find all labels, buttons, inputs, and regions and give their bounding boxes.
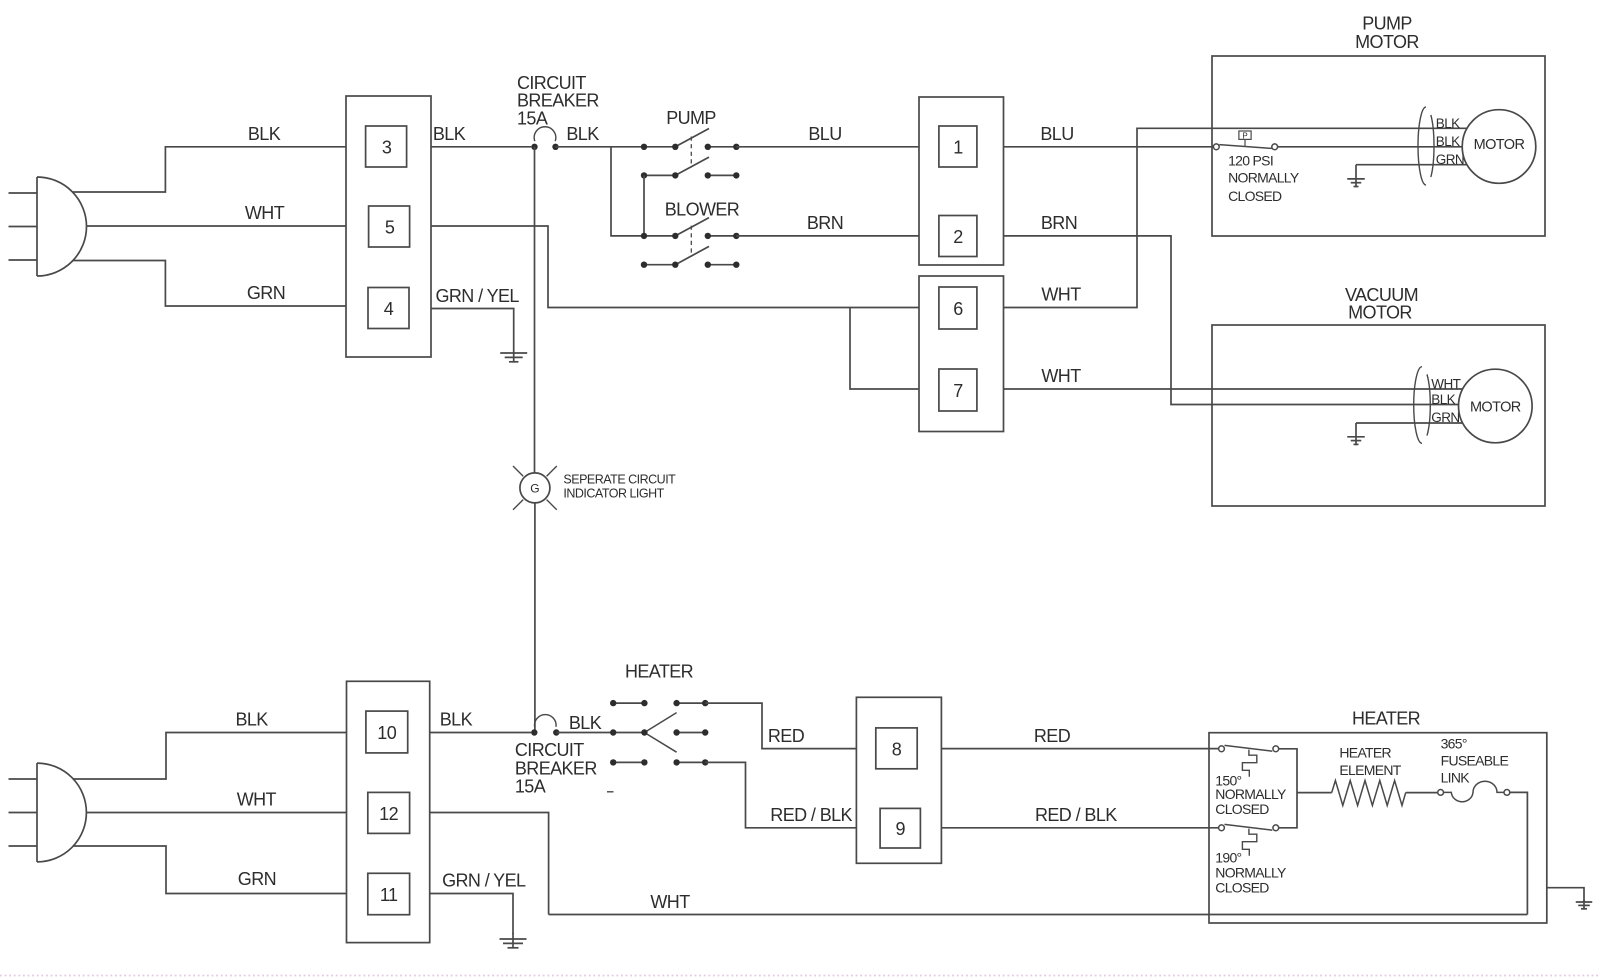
svg-text:WHT: WHT: [1041, 366, 1081, 386]
wire BLU pump switch S1 to connector J2 pin 1: [736, 146, 919, 148]
svg-text:MOTOR: MOTOR: [1470, 399, 1521, 415]
separate circuit wire lamp to lower breaker CB2: [534, 503, 536, 733]
connector J4 body (pins 10,12,11): [347, 681, 430, 942]
wire S1 pump pole2 to blower pole1: [643, 175, 645, 236]
wire fuseable link F1 to WHT return: [1510, 792, 1528, 914]
switch S2 mechanical link (dashed): [690, 226, 692, 257]
ground symbol G2 (pump motor earth): [1347, 165, 1365, 188]
wire GRN plug P2 to connector pin 11: [73, 846, 347, 894]
svg-text:12: 12: [379, 804, 399, 824]
circuit breaker CB2 15A: [531, 715, 559, 736]
connector J5 body (pins 8,9): [856, 697, 941, 863]
svg-text:GRN: GRN: [1431, 410, 1459, 425]
stray tick mark: [607, 791, 614, 793]
svg-text:7: 7: [953, 381, 963, 401]
wire RED/BLK heater switch S4 to connector J5 pin 9: [705, 762, 856, 827]
connector J3 pin 6 square: [939, 287, 977, 329]
svg-text:WHT: WHT: [1431, 376, 1460, 391]
ground symbol G5 (heater chassis earth): [1576, 900, 1593, 910]
svg-text:WHT: WHT: [1041, 285, 1081, 305]
svg-text:ELEMENT: ELEMENT: [1339, 762, 1401, 778]
svg-text:GRN: GRN: [247, 283, 285, 303]
heater enclosure box: [1209, 733, 1547, 923]
wire WHT heater return line: [549, 914, 1528, 916]
wire BLU connector J2 pin 1 to pressure switch S3: [1004, 146, 1214, 148]
svg-text:1: 1: [953, 138, 963, 158]
svg-text:5: 5: [385, 218, 395, 238]
switch S1 pole 1 (PUMP): [641, 129, 740, 151]
connector J1 body (pins 3,5,4): [346, 96, 431, 357]
heater element R1 (resistor zigzag): [1332, 781, 1406, 806]
connector J5 pin 8 square: [876, 728, 917, 769]
svg-text:BLK: BLK: [248, 124, 281, 144]
svg-text:2: 2: [953, 227, 963, 247]
wire BRN blower switch S2 to connector J2 pin 2: [736, 235, 919, 237]
ground symbol G1 (GRN/YEL earth): [500, 352, 527, 363]
svg-text:HEATER: HEATER: [1339, 745, 1391, 761]
heater switch S4 center pole and blade: [610, 713, 708, 753]
svg-text:BLK: BLK: [566, 124, 599, 144]
connector J1 pin 4 square: [368, 288, 409, 329]
separate circuit indicator light DS1: [513, 466, 557, 510]
svg-text:365°: 365°: [1441, 735, 1467, 751]
wire BLK connector J1 pin 3 to circuit breaker CB1: [431, 146, 531, 148]
svg-text:8: 8: [892, 739, 902, 759]
wire thermostat outputs junction: [1279, 749, 1297, 828]
wire WHT branch to pin 7: [850, 308, 919, 390]
svg-text:INDICATOR LIGHT: INDICATOR LIGHT: [563, 486, 664, 500]
svg-text:NORMALLY: NORMALLY: [1215, 786, 1287, 802]
svg-text:9: 9: [896, 819, 906, 839]
connector J3 pin 7 square: [939, 369, 977, 411]
separate circuit wire (vertical bus): [534, 147, 536, 473]
svg-text:BLU: BLU: [1040, 124, 1073, 144]
svg-text:PUMP: PUMP: [666, 108, 716, 128]
thermostat S6 190 normally closed: [1219, 824, 1279, 855]
svg-text:BLU: BLU: [808, 124, 841, 144]
switch S1 mechanical link (dashed): [690, 137, 692, 168]
ground symbol G4 (GRN/YEL earth): [500, 933, 527, 949]
svg-text:BLOWER: BLOWER: [665, 199, 740, 219]
wire GRN/YEL connector J1 pin 4 to earth: [431, 309, 514, 353]
svg-text:6: 6: [953, 299, 963, 319]
wire WHT plug P2 to connector pin 12: [86, 812, 346, 814]
pressure switch S3 contacts: [1213, 144, 1277, 150]
pump motor enclosure box: [1212, 56, 1545, 236]
svg-text:HEATER: HEATER: [625, 661, 694, 681]
svg-text:15A: 15A: [517, 108, 548, 128]
svg-text:WHT: WHT: [650, 892, 690, 912]
connector J4 pin 12 square: [368, 792, 410, 833]
svg-text:CLOSED: CLOSED: [1215, 801, 1269, 817]
wire heater box chassis to earth: [1547, 888, 1584, 901]
wire RED/BLK connector J5 pin 9 to 190 thermostat: [941, 827, 1218, 829]
svg-text:GRN / YEL: GRN / YEL: [442, 871, 526, 891]
wire GRN plug P1 to connector pin 4: [73, 261, 346, 307]
svg-text:NORMALLY: NORMALLY: [1215, 865, 1287, 881]
wire BLK connector J4 pin 10 to circuit breaker CB2: [430, 732, 531, 734]
wire GRN pump motor to earth: [1356, 164, 1467, 166]
svg-text:BLK: BLK: [1431, 392, 1455, 407]
svg-text:SEPERATE CIRCUIT: SEPERATE CIRCUIT: [563, 472, 676, 486]
svg-text:MOTOR: MOTOR: [1355, 32, 1419, 52]
svg-text:CLOSED: CLOSED: [1215, 880, 1269, 896]
svg-text:3: 3: [382, 138, 392, 158]
svg-text:15A: 15A: [515, 777, 546, 797]
svg-text:NORMALLY: NORMALLY: [1228, 170, 1300, 186]
circuit breaker CB1 15A: [531, 127, 558, 150]
svg-text:WHT: WHT: [237, 790, 277, 810]
svg-text:10: 10: [377, 723, 397, 743]
svg-text:BRN: BRN: [807, 213, 843, 233]
AC plug P1 (top line cord): [9, 177, 87, 276]
svg-text:LINK: LINK: [1441, 769, 1471, 785]
svg-text:P: P: [1242, 131, 1247, 140]
vacuum motor enclosure box: [1212, 325, 1545, 506]
heater switch S4 bottom contact pair: [610, 759, 708, 765]
wire RED heater switch S4 to connector J5 pin 8: [705, 703, 856, 749]
wire BLK plug P2 to connector pin 10: [73, 733, 347, 780]
svg-text:RED / BLK: RED / BLK: [770, 805, 852, 825]
svg-text:MOTOR: MOTOR: [1474, 137, 1525, 153]
svg-text:120 PSI: 120 PSI: [1228, 152, 1273, 168]
connector J3 body (pins 6,7): [919, 276, 1004, 432]
switch S2 pole 1 (BLOWER): [641, 218, 740, 239]
vacuum motor M2 circle: [1459, 369, 1533, 443]
cable sheath ellipse (vacuum motor leads): [1414, 367, 1431, 444]
svg-text:BREAKER: BREAKER: [515, 758, 597, 778]
pressure switch S3 actuator P box: [1239, 131, 1251, 146]
svg-text:HEATER: HEATER: [1352, 708, 1421, 728]
connector J4 pin 11 square: [368, 873, 410, 914]
heater switch S4 top contact pair: [610, 700, 708, 706]
svg-text:BLK: BLK: [235, 710, 268, 730]
wire GRN/YEL connector J4 pin 11 to earth: [430, 894, 513, 935]
svg-text:PUMP: PUMP: [1362, 14, 1412, 34]
wire WHT connector J3 pin 6 to pump motor BLK: [1004, 128, 1468, 307]
svg-text:RED: RED: [768, 726, 805, 746]
ground symbol G3 (vacuum motor earth): [1347, 423, 1365, 445]
wire GRN vacuum motor to earth: [1356, 422, 1463, 424]
connector J5 pin 9 square: [880, 808, 920, 848]
AC plug P2 (heater line cord): [9, 763, 87, 862]
svg-text:GRN / YEL: GRN / YEL: [436, 286, 520, 306]
connector J1 pin 3 square: [366, 126, 407, 167]
svg-text:FUSEABLE: FUSEABLE: [1441, 752, 1509, 768]
fuseable link F1: [1438, 781, 1510, 802]
wire RED connector J5 pin 8 to 150 thermostat: [941, 748, 1218, 750]
cable sheath ellipse (pump motor leads): [1418, 107, 1434, 185]
wire BLK plug P1 to connector pin 3: [73, 147, 346, 192]
svg-text:BLK: BLK: [569, 713, 602, 733]
svg-text:11: 11: [380, 885, 398, 905]
svg-text:RED / BLK: RED / BLK: [1035, 805, 1117, 825]
decorative dotted border: [0, 975, 1600, 977]
wire WHT connector J4 pin 12 to heater return: [430, 813, 549, 915]
connector J4 pin 10 square: [366, 711, 408, 753]
connector J2 pin 2 square: [939, 216, 977, 257]
wire WHT connector J3 pin 7 to vacuum motor WHT: [1004, 388, 1463, 390]
svg-text:CIRCUIT: CIRCUIT: [515, 740, 584, 760]
connector J1 pin 5 square: [369, 206, 410, 247]
svg-text:G: G: [530, 481, 539, 495]
wire WHT plug P1 to connector pin 5: [87, 225, 347, 227]
wire BRN connector J2 pin 2 to vacuum motor BLK: [1004, 236, 1460, 405]
wire heater element R1 to fuseable link F1: [1406, 792, 1438, 794]
thermostat S5 150 normally closed: [1219, 745, 1279, 776]
connector J2 body (pins 1,2): [919, 97, 1004, 265]
svg-text:BLK: BLK: [1436, 134, 1460, 149]
svg-text:4: 4: [384, 299, 394, 319]
svg-text:190°: 190°: [1215, 850, 1241, 866]
switch S1 pole 2 (PUMP): [641, 157, 740, 178]
svg-text:WHT: WHT: [245, 203, 285, 223]
pump motor M1 circle: [1462, 110, 1536, 184]
svg-text:GRN: GRN: [238, 869, 276, 889]
connector J2 pin 1 square: [939, 126, 977, 167]
svg-text:MOTOR: MOTOR: [1348, 303, 1412, 323]
svg-text:BLK: BLK: [440, 710, 473, 730]
svg-text:BRN: BRN: [1041, 213, 1077, 233]
wire pressure switch S3 to pump motor: [1278, 146, 1463, 148]
svg-text:RED: RED: [1034, 726, 1071, 746]
wire BLK CB1 to pump switch S1: [556, 146, 645, 148]
svg-text:GRN: GRN: [1436, 152, 1464, 167]
wire junction to heater element R1: [1297, 792, 1332, 794]
wire BLK CB2 to heater switch S4: [556, 732, 613, 734]
switch S2 pole 2 (BLOWER): [641, 246, 740, 268]
wire branch node to blower switch S2: [611, 147, 644, 236]
svg-text:BLK: BLK: [433, 124, 466, 144]
svg-text:BLK: BLK: [1436, 116, 1460, 131]
svg-text:CLOSED: CLOSED: [1228, 188, 1282, 204]
wire WHT connector J1 pin 5 to connector J3 pins 6/7: [431, 226, 919, 308]
